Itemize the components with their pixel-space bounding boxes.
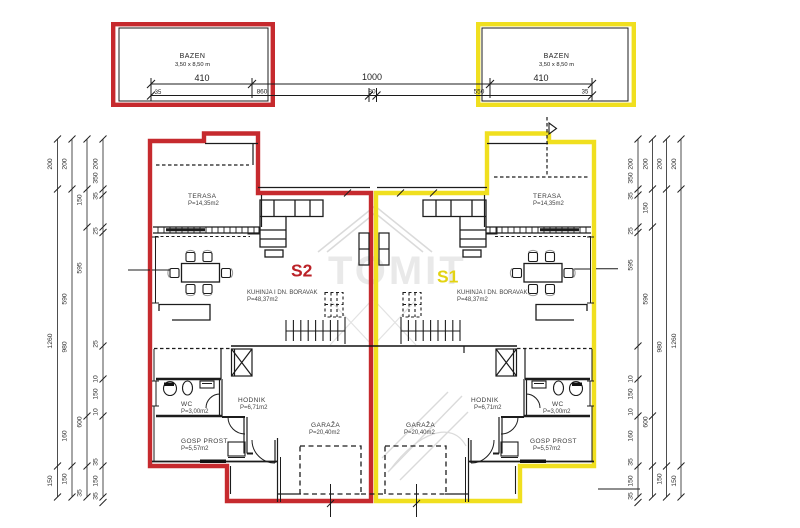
svg-text:1000: 1000 [362,72,382,82]
svg-text:590: 590 [643,293,650,305]
svg-text:GOSP PROST: GOSP PROST [530,438,577,445]
svg-text:TERASA: TERASA [533,193,562,200]
svg-text:P=5,57m2: P=5,57m2 [533,446,561,452]
svg-text:980: 980 [62,341,69,353]
svg-text:150: 150 [93,388,100,400]
svg-text:150: 150 [47,475,54,487]
svg-text:150: 150 [77,194,84,206]
svg-text:GARAŽA: GARAŽA [311,420,340,429]
svg-text:35: 35 [93,492,100,500]
svg-text:150: 150 [671,475,678,487]
svg-text:3,50 x 8,50 m: 3,50 x 8,50 m [539,62,574,68]
svg-text:35: 35 [628,492,635,500]
svg-text:600: 600 [77,416,84,428]
svg-text:200: 200 [62,158,69,170]
svg-text:150: 150 [657,473,664,485]
svg-text:10: 10 [628,375,635,383]
svg-text:P=20,40m2: P=20,40m2 [404,430,436,436]
svg-text:150: 150 [628,475,635,487]
svg-text:1260: 1260 [47,333,54,348]
svg-text:P=14,35m2: P=14,35m2 [533,201,565,207]
svg-text:35: 35 [155,90,162,96]
svg-text:35: 35 [628,458,635,466]
svg-text:BAZEN: BAZEN [180,53,206,60]
svg-text:BAZEN: BAZEN [544,53,570,60]
svg-text:150: 150 [643,202,650,214]
svg-text:25: 25 [628,227,635,235]
svg-text:HODNIK: HODNIK [238,397,266,404]
svg-text:3,50 x 8,50 m: 3,50 x 8,50 m [175,62,210,68]
svg-text:KUHINJA I DN. BORAVAK: KUHINJA I DN. BORAVAK [247,290,317,296]
svg-text:550: 550 [474,89,485,96]
svg-text:TERASA: TERASA [188,193,217,200]
svg-text:980: 980 [657,341,664,353]
svg-text:590: 590 [62,293,69,305]
svg-text:P=20,40m2: P=20,40m2 [309,430,341,436]
svg-text:S1: S1 [437,267,459,287]
svg-text:35: 35 [582,90,589,96]
svg-text:35: 35 [93,458,100,466]
svg-text:150: 150 [93,475,100,487]
svg-text:410: 410 [533,73,548,83]
svg-text:P=48,37m2: P=48,37m2 [247,297,279,303]
svg-text:GARAŽA: GARAŽA [406,420,435,429]
svg-text:160: 160 [628,430,635,442]
svg-text:150: 150 [62,473,69,485]
svg-text:WC: WC [552,401,564,408]
svg-text:HODNIK: HODNIK [471,397,499,404]
svg-text:200: 200 [643,158,650,170]
svg-text:150: 150 [628,388,635,400]
svg-text:P=14,35m2: P=14,35m2 [188,201,220,207]
svg-text:WC: WC [181,401,193,408]
svg-text:200: 200 [47,158,54,170]
svg-text:10: 10 [93,375,100,383]
svg-text:595: 595 [628,259,635,271]
svg-text:P=6,71m2: P=6,71m2 [474,405,502,411]
svg-text:200: 200 [628,158,635,170]
svg-text:S2: S2 [291,261,313,281]
svg-text:P=6,71m2: P=6,71m2 [240,405,268,411]
svg-text:160: 160 [62,430,69,442]
svg-text:P=3,00m2: P=3,00m2 [543,409,571,415]
svg-text:350: 350 [93,172,100,184]
svg-text:10: 10 [628,408,635,416]
svg-text:25: 25 [93,340,100,348]
svg-text:80: 80 [368,89,376,96]
svg-text:1260: 1260 [671,333,678,348]
svg-text:25: 25 [93,227,100,235]
svg-text:P=5,57m2: P=5,57m2 [181,446,209,452]
svg-text:10: 10 [93,408,100,416]
svg-text:595: 595 [77,262,84,274]
svg-text:410: 410 [194,73,209,83]
svg-text:35: 35 [93,192,100,200]
svg-text:GOSP PROST: GOSP PROST [181,438,228,445]
svg-text:35: 35 [77,489,84,497]
svg-text:350: 350 [628,172,635,184]
svg-text:860: 860 [257,89,268,96]
svg-text:600: 600 [643,416,650,428]
svg-text:KUHINJA I DN. BORAVAK: KUHINJA I DN. BORAVAK [457,290,527,296]
svg-text:200: 200 [671,158,678,170]
svg-text:200: 200 [93,158,100,170]
svg-text:200: 200 [657,158,664,170]
svg-text:P=3,00m2: P=3,00m2 [181,409,209,415]
svg-text:P=48,37m2: P=48,37m2 [457,297,489,303]
svg-text:35: 35 [628,192,635,200]
